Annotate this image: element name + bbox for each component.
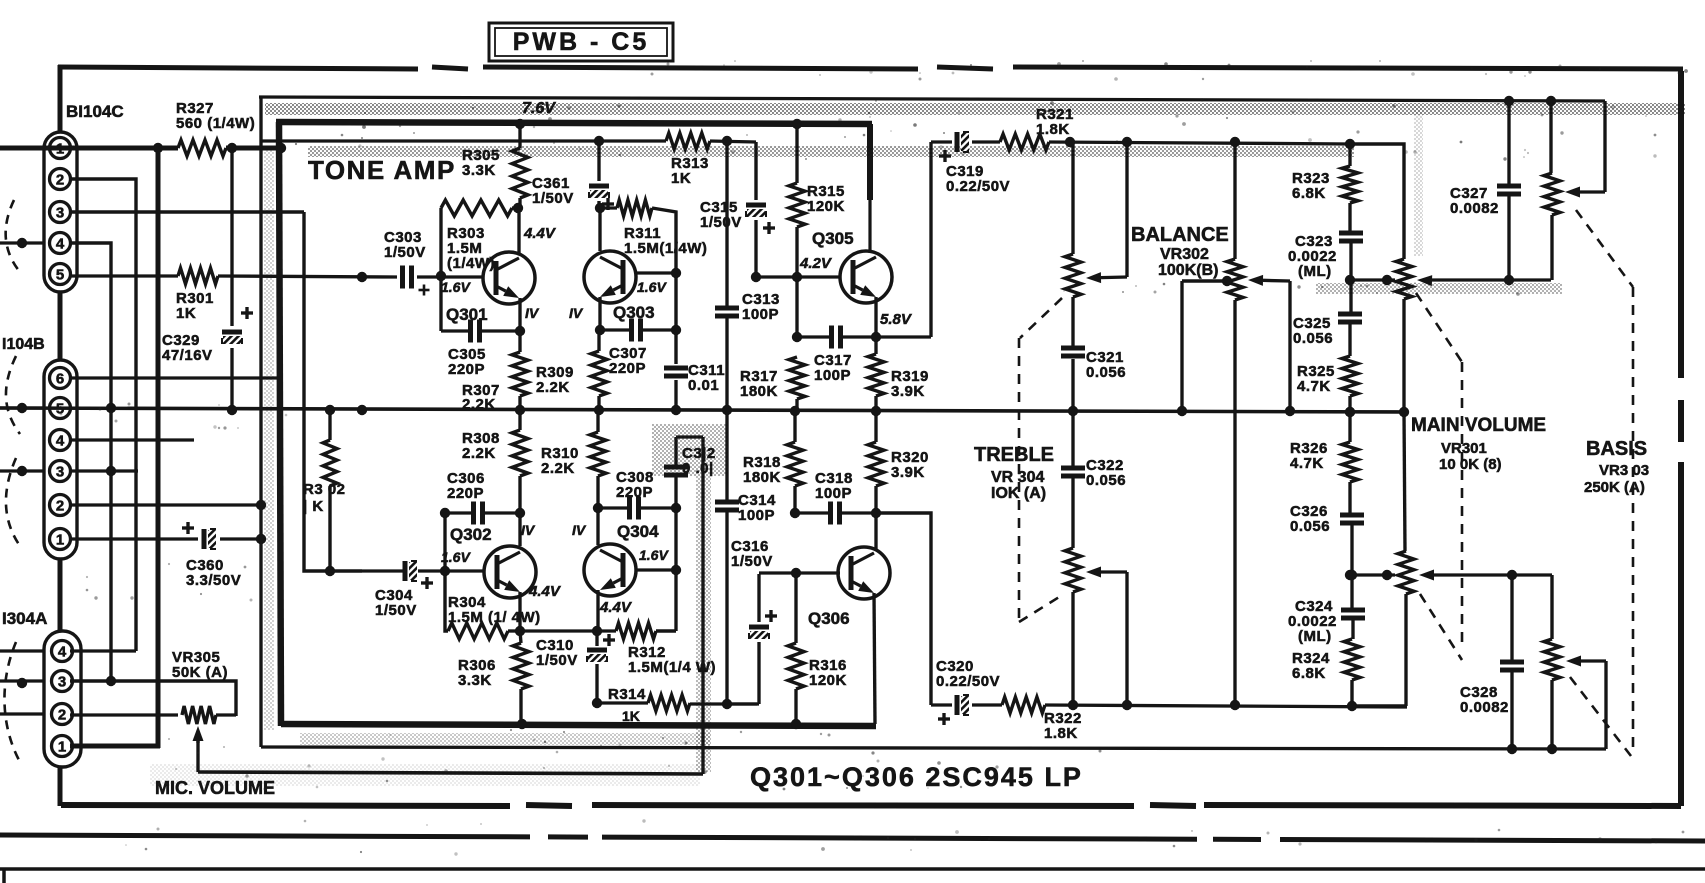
thick common line pin1C to I304A pin1	[156, 148, 161, 748]
svg-text:1.6V: 1.6V	[441, 549, 471, 565]
C360 wire to long net	[220, 537, 261, 540]
outer border bottom (dashed)	[61, 805, 510, 806]
svg-text:4.4V: 4.4V	[599, 599, 633, 616]
svg-text:2: 2	[56, 172, 64, 189]
C315 column	[754, 142, 757, 200]
C321 column	[1071, 297, 1074, 346]
C313 column	[725, 141, 728, 306]
svg-text:(ML): (ML)	[1298, 628, 1332, 645]
svg-text:0.056: 0.056	[1290, 518, 1330, 535]
pin3 B wire	[0, 469, 44, 472]
svg-text:50K (A): 50K (A)	[172, 664, 228, 681]
resistor R316	[788, 643, 804, 689]
svg-text:1.5M(1/4W): 1.5M(1/4W)	[624, 240, 707, 257]
resistor R303	[441, 200, 512, 216]
svg-text:R314: R314	[608, 686, 646, 703]
svg-text:0.056: 0.056	[1086, 472, 1126, 489]
inner top line (node B+)	[259, 97, 1605, 101]
svg-text:2.2K: 2.2K	[536, 379, 570, 396]
Q301 emitter to C305 node	[518, 298, 521, 331]
svg-text:100P: 100P	[815, 485, 852, 502]
svg-text:3: 3	[56, 464, 64, 481]
capacitor C310	[595, 631, 598, 646]
resistor R326	[1342, 442, 1358, 482]
connector I304A	[44, 631, 81, 767]
transistor Q304	[584, 544, 636, 596]
rail drop to Q305 collector	[867, 124, 873, 200]
svg-text:| K: | K	[303, 498, 324, 515]
pin5 C input line with R301	[70, 274, 178, 277]
potentiometer (balance left)	[1065, 254, 1081, 297]
svg-text:Q306: Q306	[808, 609, 850, 628]
svg-text:0.056: 0.056	[1086, 364, 1126, 381]
outer border left	[58, 65, 63, 806]
svg-text:180K: 180K	[743, 469, 781, 486]
svg-text:100P: 100P	[814, 367, 851, 384]
main volume gang dashed	[1416, 293, 1462, 362]
svg-text:TONE AMP: TONE AMP	[308, 155, 456, 185]
capacitor C327	[1497, 184, 1521, 189]
pin6 B wire + x304 vertical	[70, 376, 281, 379]
capacitor C320 electrolytic	[955, 695, 960, 715]
pin1 B wire to C360	[70, 537, 198, 540]
svg-text:I304A: I304A	[2, 609, 47, 628]
svg-text:Q301~Q306 2SC945 LP: Q301~Q306 2SC945 LP	[750, 762, 1083, 792]
svg-text:2.2K: 2.2K	[462, 445, 496, 462]
svg-text:6.8K: 6.8K	[1292, 185, 1326, 202]
C311 column	[652, 208, 676, 364]
resistor R324	[1344, 639, 1360, 680]
C314 column	[725, 412, 728, 500]
svg-text:TREBLE: TREBLE	[974, 444, 1054, 466]
halftone around mic volume line	[150, 764, 700, 786]
svg-text:4: 4	[56, 236, 65, 253]
resistor R318	[787, 442, 803, 486]
svg-text:220P: 220P	[616, 484, 653, 501]
capacitor C318	[828, 502, 833, 525]
svg-text:4.7K: 4.7K	[1297, 378, 1331, 395]
capacitor C307	[629, 319, 634, 342]
halftone right box bottom	[1316, 283, 1562, 294]
R314 line	[597, 701, 648, 704]
svg-text:1.6V: 1.6V	[639, 547, 669, 563]
svg-text:BASIS: BASIS	[1586, 438, 1647, 460]
pin4 A wire	[0, 649, 44, 652]
7.6V rail (top of thick box)	[276, 122, 872, 124]
resistor R302	[323, 440, 337, 486]
C304 to Q302 base	[445, 569, 484, 572]
halftone strip inner box top	[308, 146, 1354, 157]
svg-text:1/50V: 1/50V	[384, 244, 426, 261]
Q302 collector up	[518, 513, 521, 546]
pin2 B wire	[70, 503, 261, 506]
svg-text:6: 6	[56, 371, 64, 388]
svg-text:0.22/50V: 0.22/50V	[946, 178, 1010, 195]
R313 resistor	[666, 133, 710, 149]
Q305 emitter	[874, 297, 877, 337]
Q304 base wire right	[636, 568, 676, 571]
bottom thick bus	[281, 724, 876, 726]
svg-text:Q304: Q304	[617, 522, 659, 541]
svg-text:1.8K: 1.8K	[1044, 725, 1078, 742]
svg-text:3.9K: 3.9K	[891, 383, 925, 400]
Q306 base wire	[759, 571, 840, 574]
svg-text:2: 2	[58, 707, 66, 724]
halftone strip under top line	[265, 103, 1685, 115]
resistor R322	[1002, 697, 1045, 713]
svg-text:5: 5	[56, 267, 64, 284]
svg-text:7.6V: 7.6V	[522, 100, 556, 117]
resistor R321	[1000, 134, 1049, 150]
halftone column mic feed	[696, 476, 711, 772]
capacitor C305	[468, 320, 473, 343]
treble gang dashed	[1020, 298, 1062, 338]
svg-text:1.5M (1/ 4W): 1.5M (1/ 4W)	[448, 609, 541, 626]
pin2 A wire to VR305	[0, 712, 44, 715]
potentiometer VR303 lower	[1550, 575, 1553, 639]
capacitor C324	[1350, 575, 1353, 608]
svg-text:5.8V: 5.8V	[880, 311, 913, 328]
svg-text:1K: 1K	[671, 170, 691, 187]
svg-text:0.22/50V: 0.22/50V	[936, 673, 1000, 690]
Q302 emitter down to R304	[518, 592, 521, 631]
resistor R311	[617, 200, 652, 216]
svg-text:2.2K: 2.2K	[462, 396, 496, 413]
capacitor C317	[829, 326, 834, 349]
cable bundle dashed arcs	[6, 200, 20, 272]
resistor R310	[590, 432, 606, 476]
basis gang dashed	[1576, 210, 1633, 287]
capacitor C304 electrolytic	[403, 561, 408, 581]
resistor R308	[512, 430, 528, 476]
connector BI104C	[44, 132, 77, 292]
resistor R307	[512, 352, 528, 396]
resistor R327	[178, 140, 226, 156]
junction dots	[515, 119, 525, 129]
right RC ladder column lower	[1348, 413, 1351, 442]
capacitor C319 electrolytic	[955, 132, 960, 152]
capacitor C303	[400, 266, 405, 289]
svg-text:10 0K (8): 10 0K (8)	[1439, 456, 1502, 473]
emitter wire to C319 column	[876, 335, 931, 338]
pin3 C column down to Q302 input	[304, 212, 330, 571]
next section top border	[0, 867, 1705, 871]
C329 column	[230, 148, 233, 326]
svg-text:1: 1	[56, 532, 64, 549]
svg-text:IV: IV	[572, 522, 587, 538]
capacitor C312	[664, 465, 688, 470]
separator line (dashed)	[0, 835, 530, 837]
svg-text:2: 2	[56, 498, 64, 515]
Q304 emitter down	[596, 590, 599, 631]
svg-text:VR301: VR301	[1441, 440, 1487, 457]
svg-text:IV: IV	[525, 305, 540, 321]
svg-text:1K: 1K	[176, 305, 196, 322]
svg-text:120K: 120K	[809, 672, 847, 689]
svg-text:1/50V: 1/50V	[536, 652, 578, 669]
pin3 C wire	[70, 210, 304, 213]
svg-text:1.6V: 1.6V	[637, 279, 667, 295]
resistor R325	[1342, 356, 1358, 396]
svg-text:1/50V: 1/50V	[700, 214, 742, 231]
halftone around C312	[652, 424, 726, 476]
svg-text:220P: 220P	[609, 360, 646, 377]
pin4 C wire down col x111	[70, 243, 111, 681]
svg-text:0.0082: 0.0082	[1460, 699, 1509, 716]
long wire y746 (C360 net)	[261, 747, 1606, 749]
Q302 base column	[443, 513, 446, 571]
resistor R305	[512, 148, 528, 198]
capacitor C315 electrolytic	[746, 203, 766, 208]
R302 column	[328, 410, 331, 440]
svg-text:220P: 220P	[447, 485, 484, 502]
svg-text:Q305: Q305	[812, 229, 854, 248]
main center bus	[0, 408, 1404, 412]
resistor R301	[178, 268, 218, 284]
svg-text:220P: 220P	[448, 361, 485, 378]
svg-text:100K(B): 100K(B)	[1158, 262, 1218, 279]
Q304 collector lead	[596, 508, 599, 545]
capacitor C316 electrolytic	[749, 625, 769, 630]
capacitor C360 electrolytic	[202, 529, 207, 549]
capacitor C306	[471, 502, 476, 525]
title box PWB - C5	[489, 23, 673, 61]
svg-text:PWB - C5: PWB - C5	[513, 28, 650, 56]
Q306 emitter to thick bus	[874, 593, 875, 724]
svg-text:47/16V: 47/16V	[162, 347, 213, 364]
capacitor C325	[1338, 312, 1362, 317]
svg-text:6.8K: 6.8K	[1292, 665, 1326, 682]
potentiometer VR301 lower	[1404, 412, 1405, 551]
resistor R319	[868, 354, 884, 396]
capacitor C328	[1500, 660, 1524, 665]
Q303 base wire right	[636, 271, 676, 274]
transistor Q302	[484, 546, 536, 598]
connector BI104B	[44, 360, 77, 559]
transistor Q301	[483, 252, 535, 304]
resistor R304	[448, 623, 508, 639]
capacitor C321	[1061, 346, 1085, 351]
potentiometer VR303 upper	[1549, 101, 1552, 173]
svg-text:I104B: I104B	[2, 336, 45, 353]
potentiometer VR304	[1065, 548, 1081, 592]
svg-text:MAIN VOLUME: MAIN VOLUME	[1411, 415, 1546, 436]
pin5 B left stub	[0, 406, 44, 409]
svg-text:0.056: 0.056	[1293, 330, 1333, 347]
svg-text:100P: 100P	[738, 507, 775, 524]
svg-text:IV: IV	[569, 305, 584, 321]
transistor Q305	[840, 251, 892, 303]
pin4 B wire	[70, 438, 194, 441]
capacitor C323	[1339, 231, 1363, 236]
resistor R314	[648, 695, 690, 711]
R315 column	[795, 124, 798, 183]
C312 column	[674, 437, 677, 465]
wiper line y575	[1350, 573, 1395, 576]
svg-text:MIC. VOLUME: MIC. VOLUME	[155, 778, 275, 798]
capacitor C326	[1340, 513, 1364, 518]
svg-text:100P: 100P	[742, 306, 779, 323]
halftone right box left edge	[1414, 106, 1423, 256]
mic volume wiper line	[198, 772, 703, 774]
svg-text:0 .0|: 0 .0|	[682, 460, 714, 477]
svg-text:1K: 1K	[622, 708, 640, 724]
potentiometer VR305	[182, 706, 216, 724]
svg-text:0.01: 0.01	[688, 377, 719, 394]
resistor R309	[591, 351, 607, 396]
svg-text:180K: 180K	[740, 383, 778, 400]
C322 column	[1071, 411, 1074, 466]
capacitor C329 electrolytic	[222, 330, 242, 335]
svg-text:BI104C: BI104C	[66, 102, 124, 121]
svg-text:VR3 03: VR3 03	[1599, 462, 1649, 479]
pin3 A wire	[0, 679, 44, 682]
R320 node to Q306 collector and C320 line	[874, 513, 877, 549]
svg-text:560 (1/4W): 560 (1/4W)	[176, 115, 255, 132]
C327 column	[1507, 101, 1510, 184]
node 4.4V / R303	[512, 206, 518, 209]
mic feed column up to C312	[701, 437, 704, 774]
line to VR301 top	[1350, 144, 1404, 259]
node line y142 left (R313 line)	[262, 139, 666, 142]
scan noise	[1310, 60, 1312, 62]
C319 line (R321 net)	[931, 140, 952, 143]
resistor R323	[1342, 166, 1358, 203]
svg-text:1/50V: 1/50V	[375, 602, 417, 619]
C320 line	[931, 703, 952, 706]
resistor R312	[616, 623, 656, 639]
Q303 collector lead	[598, 208, 601, 251]
wiper line y280	[1350, 278, 1395, 281]
svg-text:1.8K: 1.8K	[1036, 121, 1070, 138]
svg-text:3.3K: 3.3K	[458, 672, 492, 689]
svg-text:BALANCE: BALANCE	[1131, 224, 1229, 246]
capacitor C313	[715, 306, 739, 311]
resistor R317	[789, 357, 805, 399]
svg-text:4.4V: 4.4V	[523, 225, 557, 242]
svg-text:3.9K: 3.9K	[891, 464, 925, 481]
capacitor C361 electrolytic column	[597, 141, 600, 181]
svg-text:VR302: VR302	[1160, 246, 1209, 263]
svg-text:3.3/50V: 3.3/50V	[186, 572, 241, 589]
halftone under bottom bus	[300, 733, 710, 745]
potentiometer VR302	[1233, 142, 1236, 259]
Q305 base wire	[756, 275, 840, 278]
svg-text:250K (A): 250K (A)	[1584, 479, 1645, 496]
resistor R315	[789, 183, 805, 227]
svg-text:1.6V: 1.6V	[441, 279, 471, 295]
C328 column	[1510, 575, 1513, 660]
base column Q301	[439, 208, 442, 331]
transistor Q306	[838, 547, 890, 599]
outer border top (dashed)	[58, 67, 418, 69]
resistor R306	[513, 643, 529, 689]
Q305 base node column to C317	[795, 277, 798, 337]
svg-text:4.7K: 4.7K	[1290, 455, 1324, 472]
Q303 emitter to C307 node	[598, 297, 601, 330]
svg-text:1.5M(1/4 W): 1.5M(1/4 W)	[628, 659, 716, 676]
svg-text:120K: 120K	[807, 198, 845, 215]
svg-text:R3 02: R3 02	[303, 481, 346, 498]
capacitor C308	[627, 497, 632, 520]
BALANCE left pot column	[1071, 142, 1074, 254]
capacitor C322	[1061, 466, 1085, 471]
svg-text:Q302: Q302	[450, 525, 492, 544]
svg-text:4.4V: 4.4V	[528, 583, 562, 600]
halftone vertical inner box left	[264, 150, 274, 730]
R314 right joins C316	[727, 702, 759, 705]
svg-text:IV: IV	[521, 522, 536, 538]
capacitor C314	[715, 500, 739, 505]
thick box left vertical	[279, 122, 281, 726]
pin2 C wire down	[70, 179, 136, 651]
capacitor C311	[664, 366, 688, 371]
svg-text:3: 3	[56, 205, 64, 222]
transistor Q303	[584, 251, 636, 303]
svg-text:4.2V: 4.2V	[799, 255, 833, 272]
C316 column	[757, 574, 760, 622]
svg-text:(ML): (ML)	[1298, 263, 1332, 280]
pin1 C thick line with R327	[0, 146, 178, 151]
R305 column	[518, 124, 521, 148]
svg-text:1/50V: 1/50V	[532, 190, 574, 207]
potentiometer VR301 upper	[1396, 259, 1412, 299]
svg-text:3.3K: 3.3K	[462, 162, 496, 179]
right RC ladder column upper	[1348, 144, 1351, 166]
svg-text:1: 1	[58, 739, 66, 756]
svg-text:0.0082: 0.0082	[1450, 200, 1499, 217]
svg-text:4: 4	[56, 433, 65, 450]
inner box left vertical (net)	[259, 97, 262, 747]
outer border right (dashed top, solid bottom)	[1678, 71, 1684, 378]
svg-text:4: 4	[58, 644, 67, 661]
svg-text:1/50V: 1/50V	[731, 553, 773, 570]
svg-text:3: 3	[58, 674, 66, 691]
svg-text:2.2K: 2.2K	[541, 460, 575, 477]
resistor R320	[868, 442, 884, 486]
